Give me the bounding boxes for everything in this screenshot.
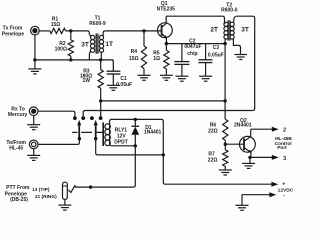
svg-text:2N4401: 2N4401	[234, 122, 252, 128]
relay arm 1	[77, 120, 81, 139]
wire J3 to arm1 pivot	[38, 139, 79, 145]
resistor R6	[223, 119, 228, 140]
svg-text:3T: 3T	[241, 27, 249, 34]
label R1 15 ohm	[51, 17, 61, 28]
transistor Q1	[158, 16, 173, 43]
label C3 0.05uF	[208, 45, 224, 58]
wire J2 to contact 1	[38, 111, 75, 116]
label R5 1ohm	[153, 51, 160, 62]
wire x225 vertical	[224, 44, 226, 120]
svg-text:RLY1: RLY1	[115, 127, 128, 133]
ground under R4	[138, 75, 151, 80]
svg-text:12VDC: 12VDC	[278, 187, 294, 193]
svg-text:R7: R7	[208, 151, 215, 157]
svg-text:DPDT: DPDT	[114, 140, 128, 146]
node T1 bottom	[99, 58, 102, 61]
label Q1 NTE235	[157, 1, 176, 12]
label R6 22ohm	[208, 122, 218, 134]
node relay top / D1 cathode	[134, 118, 137, 121]
node relay bottom / D1 anode	[134, 144, 137, 147]
svg-text:(DB-25): (DB-25)	[10, 197, 28, 203]
label C1 0.05uF	[116, 76, 132, 88]
resistor R1	[50, 28, 66, 33]
svg-text:1Ω: 1Ω	[153, 56, 160, 62]
terminal pin 3 arrow	[272, 155, 279, 160]
label Rx To Mercury	[8, 107, 28, 118]
node Q1 emitter	[165, 42, 168, 45]
transformer T2	[224, 16, 241, 54]
node J1 shield	[33, 58, 36, 61]
relay RLY1 coil	[105, 124, 111, 146]
node y101 left	[99, 99, 102, 102]
wire J1 to R1	[39, 30, 50, 32]
svg-text:2: 2	[283, 127, 286, 133]
label R3 180ohm 1W	[80, 69, 92, 84]
wire rail B relay feed	[83, 111, 253, 117]
ground under C3	[199, 76, 212, 81]
wire T2 output right rail	[237, 16, 255, 110]
svg-text:22Ω: 22Ω	[208, 158, 218, 164]
node R2 bottom	[69, 58, 72, 61]
label D1 1N4401	[144, 125, 162, 135]
svg-text:chip: chip	[187, 51, 197, 57]
svg-text:21 (RING): 21 (RING)	[35, 194, 57, 200]
label R2 100 ohm	[55, 41, 67, 53]
ground under R5	[160, 75, 173, 80]
ground at minus terminal	[236, 205, 249, 210]
node y101 right	[223, 99, 226, 102]
label Q2 2N4401	[234, 118, 252, 129]
terminal -12V arrow	[242, 194, 270, 196]
svg-text:12V: 12V	[117, 133, 127, 139]
svg-text:HL-45: HL-45	[9, 145, 23, 151]
resistor R4	[143, 31, 145, 46]
wire Q2 emitter to pin 3	[250, 156, 272, 158]
svg-text:100Ω: 100Ω	[55, 46, 67, 52]
wire D1 anode to PTT line	[75, 146, 135, 187]
mechanical link dashed	[72, 131, 102, 133]
wire to +12VDC terminal	[163, 155, 272, 184]
svg-text:0.05uF: 0.05uF	[116, 82, 132, 88]
ground under C2	[175, 76, 188, 81]
label HL-45B Control Port	[275, 136, 293, 151]
label PTT From Penelope (DB-25)	[5, 185, 30, 203]
diode D1	[131, 119, 139, 145]
svg-text:C3: C3	[213, 45, 220, 51]
wire base rail to Q1	[105, 30, 161, 32]
relay contact terminal 4	[99, 116, 103, 120]
resistor R2	[70, 31, 72, 40]
label R7 22ohm	[208, 151, 218, 163]
ground under J3	[33, 149, 35, 155]
transistor Q2	[225, 129, 255, 157]
svg-text:-: -	[283, 193, 285, 199]
svg-text:NTE235: NTE235	[157, 6, 176, 12]
connector J1 Tx From Penelope	[31, 26, 40, 35]
svg-text:15Ω: 15Ω	[51, 22, 61, 28]
svg-text:R600-9: R600-9	[89, 21, 106, 27]
terminal pin 2 arrow	[272, 127, 279, 132]
svg-text:PTT From: PTT From	[6, 185, 30, 191]
wire Q1 collector to T2	[166, 16, 224, 23]
connector J2 Rx To Mercury	[29, 107, 38, 116]
svg-text:1W: 1W	[82, 78, 90, 84]
wire emitter rail	[166, 43, 225, 45]
node R4 top	[142, 29, 145, 32]
svg-text:R600-0: R600-0	[221, 8, 238, 14]
wire minus to ground	[241, 195, 243, 205]
label RLY1 12V DPDT	[114, 127, 128, 145]
connector J3 To/From HL-45	[29, 140, 38, 149]
label R4 15ohm	[129, 49, 139, 62]
transformer T1	[89, 31, 105, 60]
label +12VDC	[278, 182, 294, 199]
label T1 R600-9	[89, 15, 106, 27]
label C2 0047uF chip	[184, 38, 201, 57]
relay contact terminal 3	[90, 116, 94, 120]
svg-text:1N4401: 1N4401	[144, 130, 162, 136]
svg-text:3: 3	[283, 156, 286, 162]
ground under T2	[234, 55, 247, 60]
node arm2 pivot	[94, 137, 97, 140]
svg-text:13 (TIP): 13 (TIP)	[32, 187, 50, 193]
label To/From HL-45	[6, 140, 26, 151]
PTT plug lever	[68, 186, 75, 193]
wire Q2 collector to pin 2	[251, 128, 272, 130]
svg-text:1T: 1T	[105, 41, 113, 48]
svg-text:0047uF: 0047uF	[184, 44, 201, 50]
ground under C1	[107, 85, 120, 90]
node Q2 base junction	[224, 143, 227, 146]
relay arm 2	[94, 120, 98, 139]
resistor R5	[165, 44, 167, 51]
node PTT line	[89, 185, 92, 188]
node arm1 pivot	[78, 137, 81, 140]
ground under R7	[219, 170, 232, 175]
relay contact terminal 2	[81, 116, 85, 120]
ground under J1	[34, 60, 36, 69]
capacitor C3	[205, 44, 207, 60]
svg-text:15Ω: 15Ω	[129, 56, 139, 62]
node T2 bottom / emitter rail	[223, 42, 226, 45]
relay RLY1 coil core	[102, 122, 104, 146]
wire y101 rail	[101, 100, 225, 102]
svg-text:22Ω: 22Ω	[208, 128, 218, 134]
svg-text:0.05uF: 0.05uF	[208, 52, 224, 58]
relay RLY1 box outline / coil wiring	[110, 119, 164, 154]
ground under Q2	[249, 157, 251, 163]
label Tx From Penelope	[2, 25, 24, 37]
label T2 R600-0	[221, 3, 238, 14]
capacitor C2	[181, 44, 183, 62]
resistor R3	[100, 60, 102, 70]
svg-text:R4: R4	[131, 49, 138, 55]
node R1/R2 junction	[69, 29, 72, 32]
svg-text:+: +	[282, 182, 285, 188]
wire arm2 common to 12V node	[96, 139, 164, 155]
wire riser to contact 4	[100, 101, 102, 117]
node Q2 emitter	[248, 156, 251, 159]
terminal +12VDC arrow	[271, 182, 278, 187]
svg-text:Port: Port	[277, 145, 287, 151]
capacitor C1	[111, 60, 113, 71]
resistor R7	[224, 144, 226, 150]
wire J1 shield down	[34, 35, 36, 60]
ground under plug	[64, 199, 66, 204]
wire ground rail y60	[35, 59, 113, 61]
PTT plug body	[63, 182, 68, 199]
relay contact terminal 1	[73, 116, 77, 120]
svg-text:R6: R6	[210, 122, 217, 128]
svg-text:2T: 2T	[210, 27, 218, 34]
node 12V junction	[162, 153, 165, 156]
svg-text:Penelope: Penelope	[2, 31, 24, 37]
ground under J2	[33, 116, 35, 125]
svg-text:3T: 3T	[81, 42, 89, 49]
svg-text:Mercury: Mercury	[8, 112, 28, 118]
wire R1 to T1 top node	[66, 31, 90, 35]
